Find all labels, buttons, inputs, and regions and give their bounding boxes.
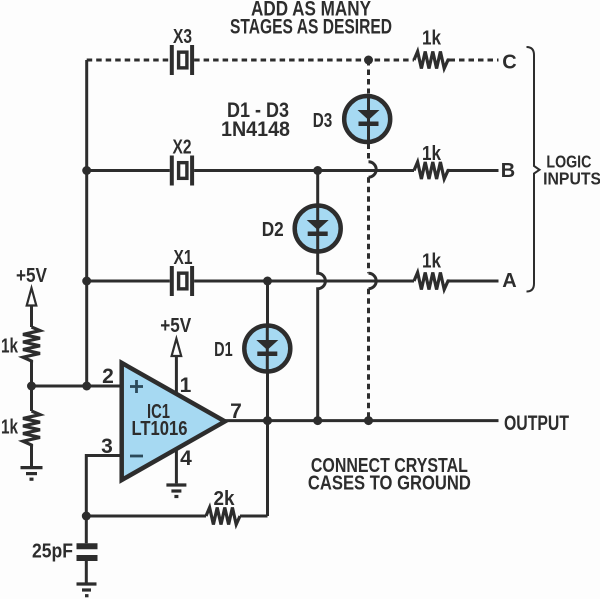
wire: dashed net C horizontal segments [87,59,499,62]
svg-text:OUTPUT: OUTPUT [504,412,569,435]
svg-text:1: 1 [180,374,192,397]
wire: feedback bottom horizontal [86,515,267,518]
svg-text:D3: D3 [313,110,333,132]
wire: left vertical bus from dashed corner down to +input node [85,60,88,386]
resistor R-A 1k [414,273,450,290]
node A label [502,270,516,292]
ground: below capacitor [77,584,97,596]
resistor R1k upper-left (vertical) [23,327,40,363]
diode D1 [244,325,290,372]
node: D2 net B junction dot [313,166,322,175]
label D3 [313,110,333,132]
node: +input junction dot [27,382,36,391]
node C label [502,52,516,74]
label 2k [214,488,236,510]
wire: capacitor to ground [85,561,88,583]
wire: +input node horizontal to op-amp pin 2 [32,385,122,388]
wire: op-amp pin 3 from feedback node [86,456,121,517]
node: bus/+input junction dot [82,382,91,391]
wire: D2 vertical branch lower with hop over net A [318,254,326,421]
op-amp U1 triangle [122,363,225,480]
wire: output line [225,419,499,422]
node: output D2 junction dot [313,416,322,425]
label ADD AS MANY / STAGES AS DESIRED [230,0,392,39]
svg-text:X2: X2 [173,137,192,159]
svg-text:1k: 1k [422,251,442,273]
wire: net B horizontal [87,169,499,172]
resistor R-C 1k [414,52,450,69]
label OUTPUT [504,412,569,435]
label CONNECT CRYSTAL / CASES TO GROUND [308,455,471,494]
label X1 [174,247,193,269]
label 1k upper-left [1,336,19,358]
crystal X1 [170,266,194,296]
svg-text:C: C [502,52,516,74]
pin number 1 [180,374,192,397]
node: output D1 junction dot [263,416,272,425]
label D1 [214,339,233,361]
label 1k (A) [422,251,442,273]
capacitor C1 25pF [77,546,98,558]
label X2 [173,137,192,159]
svg-text:INPUTS: INPUTS [543,169,600,189]
svg-text:D1: D1 [214,339,233,361]
wire: D3 dashed vertical, hop over net B [369,144,377,421]
node B label [501,160,515,182]
ground: op-amp pin 4 [166,485,186,497]
bracket: logic inputs brace [527,47,540,292]
svg-text:4: 4 [180,447,192,470]
svg-text:1k: 1k [422,28,442,50]
svg-text:+5V: +5V [160,315,192,337]
node: feedback junction dot [82,512,91,521]
resistor R 2k [206,508,240,525]
svg-text:+5V: +5V [16,265,48,287]
power +5V left arrow [16,265,48,327]
svg-text:1k: 1k [1,417,19,439]
svg-text:X3: X3 [173,26,192,48]
power +5V op-amp pin 1 arrow [160,315,192,398]
svg-text:25pF: 25pF [32,541,73,563]
label D2 [262,219,284,241]
node: output D3 junction dot [364,416,373,425]
pin number 4 [180,447,192,470]
svg-text:STAGES AS DESIRED: STAGES AS DESIRED [230,16,392,39]
resistor R1k lower-left (vertical) [23,386,40,466]
svg-text:1N4148: 1N4148 [221,118,290,141]
label D1 - D3 / 1N4148 [221,99,290,141]
svg-text:3: 3 [101,435,113,458]
diode D3 [344,95,390,142]
label 1k (C) [422,28,442,50]
wire: D3 dashed vertical upper (net C to circle) [367,60,370,94]
resistor R-B 1k [414,162,450,179]
wire: feedback node down to capacitor [85,516,88,543]
pin number 3 [101,435,113,458]
label 25pF [32,541,73,563]
wire: op-amp pin 4 to ground [175,445,178,483]
label LOGIC INPUTS [543,151,600,188]
svg-text:X1: X1 [174,247,193,269]
label 1k (B) [422,143,442,165]
wire: net A horizontal [87,280,499,283]
svg-text:1k: 1k [1,336,19,358]
node: D3 net C junction dot [364,56,373,65]
crystal X2 [170,156,194,186]
svg-text:2k: 2k [214,488,236,510]
label IC1 / LT1016 [132,401,188,440]
wire: from upper 1k to +input node [30,363,33,387]
node: D1 net A junction dot [263,277,272,286]
crystal X3 [170,45,194,75]
node: bus net B junction dot [82,166,91,175]
pin number 7 [230,400,242,423]
svg-text:1k: 1k [422,143,442,165]
label 1k lower-left [1,417,19,439]
pin number 2 [102,365,114,388]
svg-text:CASES TO GROUND: CASES TO GROUND [308,472,471,494]
svg-text:D2: D2 [262,219,284,241]
svg-text:LT1016: LT1016 [132,418,188,440]
wire: D2 vertical branch upper (net B to circle) [316,171,319,254]
wire: D1 vertical branch (net A to output, through feedback down to 2k) [266,281,269,516]
svg-text:2: 2 [102,365,114,388]
diode D2 [295,205,341,252]
node: bus net A junction dot [82,277,91,286]
ground: below lower-left 1k [21,468,43,480]
label X3 [173,26,192,48]
svg-text:B: B [501,160,515,182]
svg-text:A: A [502,270,516,292]
